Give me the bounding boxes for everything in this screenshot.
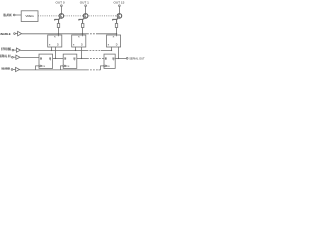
pin CLOCK circle [11, 69, 13, 71]
svg-text:Q: Q [49, 58, 51, 61]
junction col2 strobe rail [75, 50, 76, 51]
junction col3 strobe rail [111, 50, 112, 51]
shift register box FF3 [104, 54, 115, 68]
junction col1 strobe rail [51, 50, 52, 51]
junction col1 enable rail [58, 33, 59, 34]
svg-text:E: E [73, 45, 75, 47]
wire OUT 0 pin to transistor [60, 7, 62, 14]
junction col1 data tap [55, 58, 56, 59]
wire emitter of Q1 to predriver [54, 18, 61, 24]
pin OUT 1 circle [85, 5, 87, 7]
transistor Q3 [117, 14, 122, 19]
resistor R2 [82, 24, 84, 28]
wire data tap stub col3 [118, 47, 120, 58]
junction col3 data tap [118, 58, 119, 59]
wire R1 to enable rail [58, 28, 60, 37]
wire OUT 1 pin to transistor [85, 7, 87, 14]
transistor Q2 [83, 14, 88, 19]
pin OUT n circle [119, 5, 121, 7]
pin SERIAL IN circle [12, 56, 14, 58]
svg-text:CLOCK: CLOCK [1, 68, 10, 71]
wire SERIAL IN to shift register 1 [20, 56, 39, 58]
wire clock riser column 3 [101, 66, 104, 70]
wire data tap stub col2 [81, 47, 83, 58]
latch driver box col2 [72, 35, 86, 47]
svg-text:D: D [65, 58, 67, 61]
wire R3 to enable rail [116, 28, 118, 37]
svg-text:D: D [105, 58, 107, 61]
shift register box FF1 [39, 54, 53, 68]
node OUT 1 label [80, 1, 89, 5]
wire FF3.Q to serial out pin [115, 57, 126, 59]
pin STROBE circle [12, 49, 14, 51]
svg-text:R: R [54, 37, 56, 39]
svg-text:R: R [78, 37, 80, 39]
transistor Q1 [59, 14, 64, 19]
resistor R1 [57, 24, 59, 28]
wire bias dashed rail [38, 15, 117, 17]
resistor R3 [115, 24, 117, 28]
node OUT 0 label [56, 1, 65, 5]
wire strobe stub col2 [75, 47, 77, 50]
svg-text:CK: CK [107, 66, 111, 68]
node SERIAL OUT label [129, 56, 145, 60]
junction col2 enable rail [82, 33, 83, 34]
wire data rail dashed gap FF2 to FF3 [77, 57, 87, 59]
node CLOCK input label [1, 67, 10, 71]
wire clock riser column 1 [36, 66, 39, 70]
buffer SERIAL IN [13, 56, 16, 58]
buffer ENABLE [15, 33, 17, 35]
pin FF1 clock bubble [39, 65, 41, 67]
wire OUT n pin to transistor [118, 7, 120, 14]
svg-text:Q: Q [74, 58, 76, 61]
wire CLOCK rail [20, 69, 88, 71]
junction col3 enable rail [116, 33, 117, 34]
wire BLANK to regulator [15, 14, 21, 16]
svg-text:SERIAL IN: SERIAL IN [0, 56, 11, 59]
pin FF2 clock bubble [63, 65, 65, 67]
wire ENABLE rail [22, 33, 87, 35]
wire STROBE rail [20, 49, 86, 51]
pin ENABLE circle [14, 33, 16, 35]
svg-text:CK: CK [42, 66, 46, 68]
svg-text:STROBE: STROBE [1, 49, 12, 52]
svg-text:VREG: VREG [25, 14, 34, 18]
svg-text:E: E [49, 45, 51, 47]
latch driver box col1 [48, 35, 62, 47]
svg-text:ENABLE: ENABLE [0, 32, 11, 36]
buffer CLOCK [13, 69, 16, 71]
node SERIAL IN input label [0, 55, 11, 59]
wire data tap stub col1 [55, 47, 57, 58]
output column cells [39, 1, 125, 69]
svg-text:D: D [40, 58, 42, 61]
buffer STROBE [14, 49, 17, 51]
wire emitter of Q3 to predriver [112, 18, 119, 24]
svg-text:SERIAL OUT: SERIAL OUT [129, 56, 145, 60]
wire strobe stub col3 [111, 47, 113, 50]
wire strobe stub col1 [51, 47, 53, 50]
pin SERIAL OUT circle [126, 58, 128, 60]
node ENABLE input label [0, 32, 11, 36]
svg-text:CK: CK [67, 66, 71, 68]
wire R2 to enable rail [82, 28, 84, 37]
wire emitter of Q2 to predriver [79, 18, 86, 24]
wire data rail segment FF1.Q to FF2.D [53, 57, 64, 59]
regulator box U1 [21, 11, 38, 22]
svg-text:BLANK: BLANK [3, 15, 12, 18]
wire clock riser column 2 [61, 66, 63, 70]
svg-text:OUT 0: OUT 0 [56, 1, 65, 5]
svg-text:E: E [108, 45, 110, 47]
node OUT n label [114, 1, 125, 5]
svg-text:D: D [81, 44, 83, 47]
pin BLANK circle [13, 14, 15, 16]
junction col2 data tap [81, 58, 82, 59]
svg-text:D: D [116, 44, 118, 47]
latch driver box col3 [107, 35, 121, 47]
svg-text:Q: Q [113, 58, 115, 61]
svg-text:OUT 15: OUT 15 [114, 1, 125, 5]
node BLANK input label [3, 14, 12, 18]
svg-text:R: R [113, 37, 115, 39]
pin OUT 0 circle [61, 5, 63, 7]
shift register box FF2 [63, 54, 77, 68]
pin FF3 clock bubble [104, 65, 106, 67]
svg-text:D: D [57, 44, 59, 47]
svg-text:OUT 1: OUT 1 [80, 1, 89, 5]
node STROBE input label [1, 48, 12, 52]
